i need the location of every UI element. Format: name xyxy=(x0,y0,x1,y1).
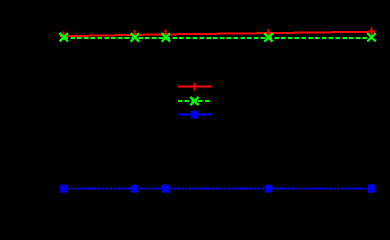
red series line xyxy=(64,32,372,37)
legend entry 3: blue xyxy=(178,114,212,116)
green x markers xyxy=(60,33,376,42)
legend entry 1: red xyxy=(178,86,212,88)
green dashed series line xyxy=(64,37,372,39)
red + markers xyxy=(60,27,375,38)
legend entry 2: green xyxy=(178,100,212,102)
blue * markers xyxy=(59,184,375,193)
blue dashed series line xyxy=(64,188,372,190)
